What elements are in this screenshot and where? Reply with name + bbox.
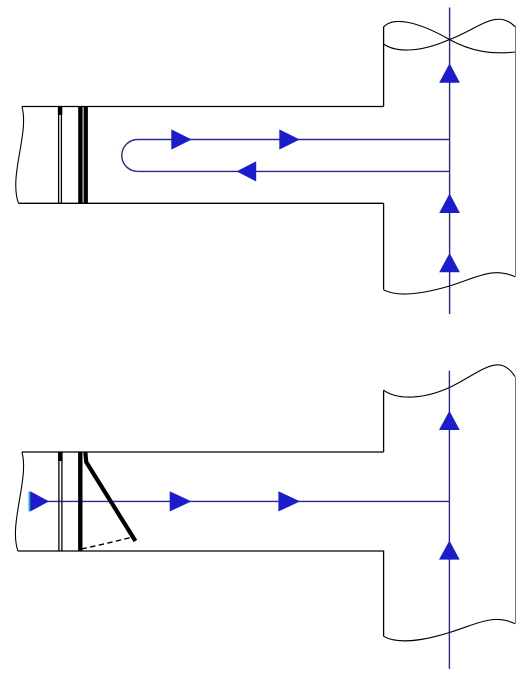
flow arrow up 2 (riser) bbox=[439, 541, 460, 560]
branch duct bottom wall bbox=[19, 202, 384, 204]
flow arrow up 3 (riser) bbox=[439, 253, 460, 272]
damper frame thin line 1 bbox=[58, 452, 60, 551]
flow arrow right 3 bbox=[278, 491, 300, 511]
flow centerline (riser duct, bottom diagram) bbox=[448, 371, 450, 669]
flow arrow right 1 (upper line) bbox=[171, 129, 191, 149]
riser duct left wall lower segment bbox=[383, 551, 385, 637]
riser top break curve B bbox=[384, 19, 515, 50]
riser duct right wall bbox=[515, 377, 517, 624]
damper swing arc (dashed) bbox=[82, 537, 132, 549]
damper frame thin line 2 bbox=[61, 452, 63, 551]
branch duct top wall bbox=[22, 106, 384, 108]
flow arrow up 2 (riser) bbox=[439, 194, 460, 214]
riser duct left wall lower segment bbox=[383, 203, 385, 289]
riser duct right wall bbox=[515, 26, 517, 277]
damper blade closed bar 1 bbox=[78, 107, 82, 204]
riser top break curve bbox=[384, 365, 515, 397]
riser duct left wall upper segment bbox=[383, 27, 385, 107]
damper frame thin line 1 bbox=[58, 107, 60, 204]
flow arrow left (lower line) bbox=[237, 161, 257, 181]
flow line through branch bbox=[30, 500, 450, 502]
damper hinge block bbox=[58, 452, 63, 461]
branch duct break line (left) bbox=[16, 107, 24, 204]
flow arrow right 2 (upper line) bbox=[279, 129, 299, 149]
branch duct top wall bbox=[22, 451, 384, 453]
damper frame bar bbox=[78, 452, 82, 551]
damper blade closed bar 2 bbox=[84, 107, 88, 204]
flow arrow up 1 (riser) bbox=[439, 411, 460, 430]
flow line lower (out of branch) bbox=[138, 170, 450, 172]
riser duct left wall upper segment bbox=[383, 390, 385, 452]
flow line upper (into branch) bbox=[138, 139, 450, 141]
riser bottom break curve bbox=[384, 619, 515, 640]
riser top break curve A bbox=[384, 21, 515, 52]
flow arrow right 1 (branch inlet) bbox=[30, 491, 49, 511]
branch duct bottom wall bbox=[18, 550, 384, 552]
flow arrow right 2 bbox=[170, 491, 192, 511]
damper hinge block bbox=[58, 107, 62, 116]
flow arrow up 1 (riser) bbox=[439, 63, 460, 83]
riser bottom break curve bbox=[384, 273, 515, 294]
damper blade open (diagonal) bbox=[85, 453, 135, 542]
flow U-turn arc bbox=[122, 140, 138, 172]
damper frame thin line 2 bbox=[60, 107, 62, 204]
flow arrow right 1 back edge (cyan) bbox=[28, 491, 30, 511]
branch duct break line (left) bbox=[15, 452, 23, 551]
flow centerline (riser duct, top diagram) bbox=[449, 8, 451, 315]
